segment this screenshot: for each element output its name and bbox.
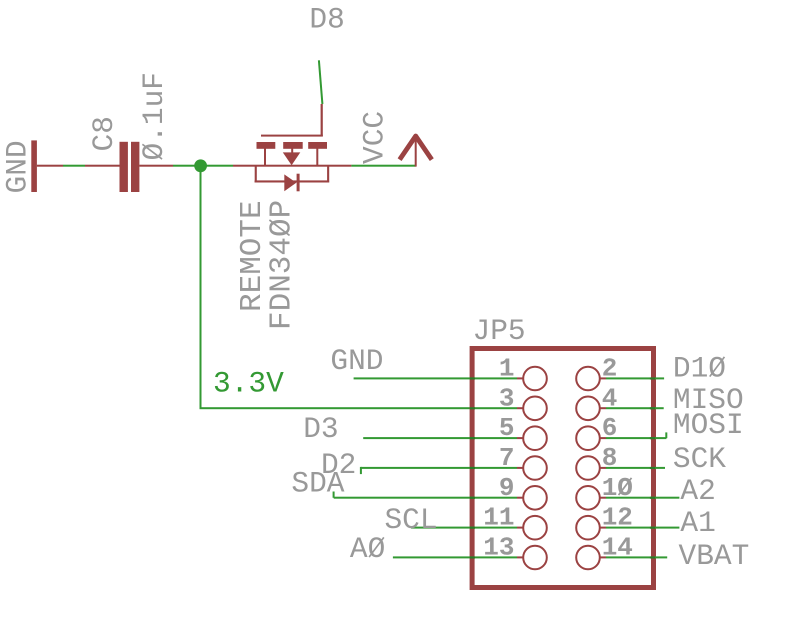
pin 5 red stub: [517, 437, 523, 439]
svg-text:SCK: SCK: [673, 442, 726, 476]
pin 11 circle: [523, 516, 547, 540]
wire net GND to pin 1: [354, 377, 517, 379]
pin 10 red stub: [600, 497, 606, 499]
wire-over-border blend right row y=378.5: [650, 377, 655, 379]
wire net 3.3V horizontal to junction and mosfet: [173, 165, 233, 167]
body diode loop left vertical: [255, 166, 257, 183]
pin 1 circle: [523, 367, 547, 391]
wire net SCK from pin 8: [606, 467, 665, 469]
wire net 3.3V horizontal to pin 3: [200, 407, 518, 409]
wire-over-border blend right row y=557.5: [650, 556, 655, 558]
wire net GND-C8 (green): [63, 165, 85, 167]
pin 2 circle: [576, 367, 600, 391]
wire net SDA end tick: [333, 492, 335, 498]
wire net SCL to pin 11: [411, 527, 517, 529]
mosfet source contact bar: [257, 142, 276, 149]
pin 12 red stub: [600, 527, 606, 529]
pin 2 red stub: [600, 377, 606, 379]
body diode loop bottom horizontal: [255, 180, 330, 182]
pin 7 circle: [523, 456, 547, 480]
wire net SDA to pin 9: [334, 497, 517, 499]
pin 3 red stub: [517, 407, 523, 409]
wire-over-border blend left row y=557.5: [470, 556, 475, 558]
wire net MISO from pin 4: [606, 407, 664, 409]
pin wire from GND symbol: [37, 165, 63, 167]
svg-text:A1: A1: [680, 506, 715, 540]
mosfet drain contact bar: [308, 142, 327, 149]
wire-over-border blend left row y=497.8: [470, 497, 475, 499]
wire net D10 from pin 2: [606, 377, 664, 379]
pin wire capacitor left: [85, 165, 120, 167]
pin 3 circle: [523, 397, 547, 421]
junction node 3.3V: [194, 159, 207, 172]
svg-text:3: 3: [499, 383, 515, 413]
connector JP5 outline box: [472, 349, 653, 588]
wire-over-border blend left row y=527.7: [470, 527, 475, 529]
svg-text:3.3V: 3.3V: [213, 366, 284, 400]
wire-over-border blend right row y=497.8: [650, 497, 655, 499]
wire net A1 from pin 12: [606, 527, 679, 529]
transistor gate bar horizontal: [261, 135, 323, 137]
svg-text:AØ: AØ: [350, 532, 385, 566]
pin 11 red stub: [517, 527, 523, 529]
pin wire capacitor right: [139, 165, 173, 167]
svg-text:FDN34ØP: FDN34ØP: [265, 200, 300, 330]
ground symbol GND (rotated bar): [31, 140, 37, 192]
svg-text:D8: D8: [309, 3, 344, 37]
pin 14 red stub: [600, 556, 606, 558]
pin 4 circle: [576, 397, 600, 421]
wire net D2 end tick: [360, 467, 362, 474]
wire net A2 from pin 10: [606, 497, 679, 499]
wire net D2 to pin 7: [361, 467, 517, 469]
pin 4 red stub: [600, 407, 606, 409]
pin 6 red stub: [600, 437, 606, 439]
mosfet source-drain rail (red): [233, 165, 351, 167]
svg-text:VCC: VCC: [358, 111, 392, 164]
wire-over-border blend left row y=378.5: [470, 377, 475, 379]
pin 12 circle: [576, 516, 600, 540]
wire-over-border blend right row y=408.3: [650, 407, 655, 409]
pin 14 circle: [576, 546, 600, 570]
mosfet source stub: [264, 149, 266, 167]
svg-text:SCL: SCL: [384, 503, 437, 537]
wire net MOSI from pin 6: [606, 437, 666, 439]
pin 9 circle: [523, 486, 547, 510]
pin 5 circle: [523, 426, 547, 450]
svg-text:MOSI: MOSI: [673, 408, 744, 442]
wire-over-border blend right row y=468: [650, 467, 655, 469]
wire-over-border blend left row y=408.3: [470, 407, 475, 409]
pin 13 circle: [523, 546, 547, 570]
wire net D8 gate (green, slanted): [319, 60, 323, 104]
wire-over-border blend left row y=468: [470, 467, 475, 469]
body diode loop right vertical: [327, 166, 329, 183]
wire net VCC (green): [351, 165, 415, 167]
pin 8 circle: [576, 456, 600, 480]
body diode anode triangle: [284, 174, 296, 191]
capacitor C8 plate right: [131, 142, 139, 192]
transistor Q1 FDN340P gate lead vertical: [321, 104, 323, 136]
svg-text:Ø.1uF: Ø.1uF: [137, 72, 171, 161]
pin 10 circle: [576, 486, 600, 510]
mosfet body contact bar: [283, 142, 303, 149]
svg-text:D1Ø: D1Ø: [673, 351, 726, 385]
capacitor C8 plate left: [120, 142, 128, 192]
mosfet body arrow (p-channel): [291, 149, 293, 154]
svg-text:SDA: SDA: [291, 467, 344, 501]
pin 1 red stub: [517, 377, 523, 379]
wire-over-border blend right row y=438.2: [650, 437, 655, 439]
svg-text:JP5: JP5: [473, 314, 526, 348]
power symbol VCC chevron: [400, 136, 432, 160]
wire net D3 to pin 5: [363, 437, 517, 439]
wire net 3.3V vertical drop: [200, 166, 202, 408]
svg-text:GND: GND: [330, 344, 383, 378]
svg-text:D3: D3: [303, 412, 338, 446]
pin 9 red stub: [517, 497, 523, 499]
wire net VBAT from pin 14: [606, 556, 667, 558]
wire net MOSI end tick: [665, 432, 667, 438]
mosfet drain stub: [316, 149, 318, 167]
svg-text:A2: A2: [680, 474, 715, 508]
power symbol VCC stem: [415, 135, 417, 167]
svg-text:GND: GND: [1, 140, 35, 193]
wire net A0 to pin 13: [393, 556, 517, 558]
wire-over-border blend left row y=438.2: [470, 437, 475, 439]
pin 7 red stub: [517, 467, 523, 469]
svg-text:VBAT: VBAT: [679, 539, 750, 573]
pin 6 circle: [576, 426, 600, 450]
pin 13 red stub: [517, 556, 523, 558]
svg-text:C8: C8: [87, 116, 121, 151]
wire-over-border blend right row y=527.7: [650, 527, 655, 529]
body diode cathode bar: [297, 174, 300, 192]
pin 8 red stub: [600, 467, 606, 469]
